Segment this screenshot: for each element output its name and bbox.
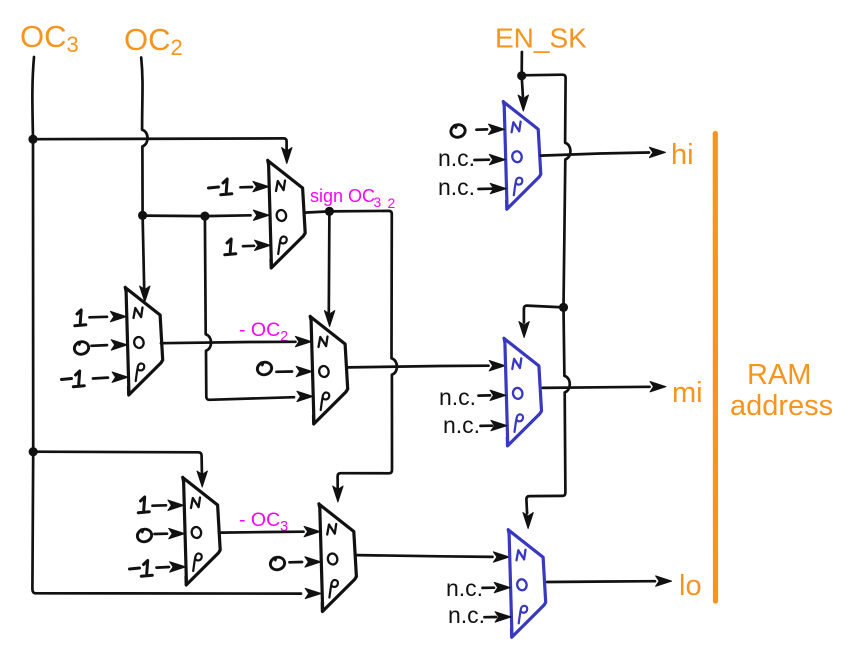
svg-text:OC2: OC2	[124, 22, 183, 60]
wire sign net right and down to M6 select (hops M3 output)	[329, 211, 397, 502]
wire 0 to M2 input O	[92, 340, 128, 350]
net label mi (orange)	[672, 377, 703, 409]
wire OC2 junction to M1 input O	[143, 210, 270, 220]
svg-text:n.c.: n.c.	[448, 602, 485, 628]
constant -1 label at M2.P	[62, 371, 85, 387]
constant -1 label at M5.P	[130, 561, 153, 577]
svg-text:lo: lo	[679, 570, 702, 602]
label n.c. at M7.O	[439, 384, 476, 410]
net label sign OC3 2 (magenta)	[310, 186, 395, 211]
wire M3 output to M7 input N	[348, 361, 505, 371]
net label - OC2 (magenta)	[239, 319, 288, 345]
svg-text:n.c.: n.c.	[443, 412, 480, 438]
wire n.c. to M4 input P	[479, 183, 507, 193]
wire M8 output to lo	[547, 576, 671, 586]
label RAM address (orange)	[730, 359, 833, 422]
junction node OC3 x top-wire	[28, 135, 37, 144]
mux M3 (mi source selector)	[310, 316, 348, 424]
junction node OC3 x M5-select	[29, 447, 38, 456]
svg-text:n.c.: n.c.	[438, 145, 475, 171]
net label OC2	[124, 22, 183, 60]
wire 0 to M3 input O	[277, 366, 313, 376]
wire M4 output to hi	[541, 147, 666, 157]
wire 1 to M2 input N	[90, 311, 127, 321]
wire EN_SK down to junction	[520, 52, 523, 76]
wire n.c. to M4 input O	[475, 154, 506, 164]
wire M7 output to mi	[543, 382, 666, 392]
wire M5 output to M6 input N	[221, 526, 320, 536]
wire n.c. to M7 input O	[479, 390, 507, 400]
mux M4 (hi output mux)	[503, 102, 541, 210]
svg-text:n.c.: n.c.	[438, 174, 475, 200]
wire n.c. to M8 input P	[485, 612, 512, 622]
wire -1 to M5 input P	[157, 562, 186, 572]
wire OC3 junction to M5 select	[33, 452, 207, 487]
wire 1 to M5 input N	[153, 500, 184, 510]
svg-text:n.c.: n.c.	[439, 384, 476, 410]
svg-text:n.c.: n.c.	[446, 575, 483, 601]
net label lo (orange)	[679, 570, 702, 602]
net label - OC3 (magenta)	[239, 509, 288, 535]
wire 0 to M4 input N	[477, 124, 505, 134]
constant 1 label at M2.N	[75, 310, 86, 326]
svg-text:2: 2	[388, 196, 396, 211]
mux M1 (sign evaluator for OC3,2)	[268, 160, 306, 268]
wire -1 to M1 input N	[241, 181, 269, 191]
wire sign junction down to M3 select	[324, 211, 334, 326]
constant 0 label at M2.O	[73, 340, 90, 356]
wire EN_SK rail to M7 select	[519, 306, 564, 338]
svg-text:OC3: OC3	[20, 19, 79, 57]
mux M8 (lo output mux)	[508, 530, 546, 638]
mux M6 (lo source selector)	[319, 504, 357, 612]
mux M5 (negate OC3 selector)	[183, 477, 221, 585]
constant 0 label at M3.O	[256, 361, 273, 377]
wire EN_SK junction to M4 select	[518, 76, 528, 111]
net label hi (orange)	[671, 139, 694, 171]
junction node OC2 x M1.O wire	[138, 211, 147, 220]
svg-text:RAM: RAM	[747, 359, 811, 391]
wire branch down to M3 input P (hops M2 output)	[205, 216, 313, 401]
wire -1 to M2 input P	[93, 372, 128, 382]
net label OC3	[20, 19, 79, 57]
RAM address bracket bar (orange)	[713, 134, 718, 602]
wire OC2 to M2 select	[140, 215, 150, 302]
svg-text:mi: mi	[672, 377, 703, 409]
constant -1 label at M1.N	[209, 179, 232, 195]
mux M7 (mi output mux)	[504, 338, 542, 446]
wire M2 output to M3 input N	[161, 336, 311, 346]
wire top horizontal OC3 to M1 select	[33, 138, 292, 163]
junction node M1.O-wire branch down	[200, 212, 209, 221]
constant 0 label at M5.O	[136, 528, 153, 544]
junction node EN_SK	[517, 71, 526, 80]
label n.c. at M7.P	[443, 412, 480, 438]
mux M2 (negate OC2 selector)	[125, 287, 163, 395]
wire 0 to M5 input O	[155, 528, 185, 538]
svg-text:EN_SK: EN_SK	[495, 23, 587, 54]
svg-text:hi: hi	[671, 139, 694, 171]
label n.c. at M8.O	[446, 575, 483, 601]
label n.c. at M4.P	[438, 174, 475, 200]
wire M1 output (sign) to junction	[304, 211, 329, 212]
constant 1 label at M5.N	[138, 497, 149, 513]
svg-text:address: address	[730, 390, 833, 422]
label n.c. at M8.P	[448, 602, 485, 628]
net label EN_SK	[495, 23, 587, 54]
wire n.c. to M8 input O	[483, 582, 511, 592]
svg-text:3: 3	[374, 195, 382, 210]
wire 1 to M1 input P	[243, 240, 271, 250]
constant 1 label at M1.P	[225, 239, 236, 255]
junction node sign-wire	[325, 207, 334, 216]
wire M6 output to M8 input N	[357, 552, 510, 562]
svg-text:sign OC: sign OC	[310, 186, 375, 206]
wire n.c. to M7 input P	[481, 420, 507, 430]
label n.c. at M4.O	[438, 145, 475, 171]
junction node EN_SK rail / M7 select	[559, 303, 568, 312]
wire OC3 vertical rail and bottom horizontal to M6.P	[32, 57, 321, 599]
wire 0 to M6 input O	[290, 557, 321, 567]
constant 0 label at M4.N	[450, 123, 467, 139]
wire EN_SK rail right and down (hops hi and mi outputs)	[522, 75, 571, 529]
constant 0 label at M6.O	[269, 556, 286, 572]
wire OC2 vertical rail (hops top wire)	[141, 58, 147, 216]
